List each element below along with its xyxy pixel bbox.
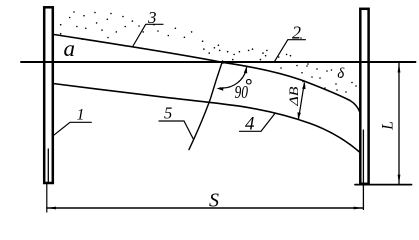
svg-text:ΔB: ΔB bbox=[287, 86, 301, 107]
svg-text:90: 90 bbox=[235, 82, 249, 102]
stipple dots of embankment bbox=[60, 11, 357, 93]
right post support bbox=[360, 9, 368, 184]
sight line (net 2) bbox=[21, 61, 416, 63]
L dimension line bbox=[398, 63, 400, 184]
svg-text:3: 3 bbox=[147, 8, 157, 27]
left post inner line bbox=[47, 149, 49, 182]
arrowhead delta-B top bbox=[302, 82, 305, 89]
svg-text:δ: δ bbox=[337, 66, 345, 82]
ground line at right post bbox=[355, 184, 412, 186]
arrowhead 90-arc left bbox=[216, 87, 223, 90]
arrowhead 90-arc top bbox=[244, 66, 247, 73]
svg-text:a: a bbox=[64, 36, 76, 61]
svg-text:2: 2 bbox=[292, 23, 301, 43]
left post (support 1) bbox=[44, 7, 53, 183]
delta-B dimension line bbox=[299, 83, 305, 119]
arrowhead L bottom bbox=[398, 175, 401, 184]
arrowhead L top bbox=[398, 63, 401, 72]
svg-text:5: 5 bbox=[164, 104, 172, 123]
leader of label 5 bbox=[159, 121, 193, 139]
left post extension line bbox=[46, 184, 48, 213]
S dimension line bbox=[47, 207, 363, 209]
leader of label 3 bbox=[133, 24, 163, 46]
degree circle of 90 bbox=[247, 79, 252, 84]
svg-text:1: 1 bbox=[77, 107, 85, 124]
leader of label 1 bbox=[54, 122, 92, 135]
svg-text:L: L bbox=[380, 121, 397, 131]
leader of label 2 bbox=[274, 40, 305, 62]
upper wire (lines 3 and 2) bbox=[54, 35, 360, 113]
junction blob bbox=[222, 61, 225, 64]
arrowhead S left bbox=[47, 207, 56, 210]
right post inner line bbox=[362, 130, 364, 210]
lower wire (line 4) bbox=[53, 84, 360, 153]
svg-text:4: 4 bbox=[245, 114, 255, 135]
leader of label 4 bbox=[240, 114, 275, 132]
90-degree arc bbox=[220, 68, 247, 89]
measuring stick (line 5) bbox=[189, 61, 223, 150]
arrowhead delta-B bottom bbox=[298, 112, 301, 119]
arrowhead S right bbox=[354, 207, 363, 210]
svg-text:S: S bbox=[209, 190, 219, 212]
